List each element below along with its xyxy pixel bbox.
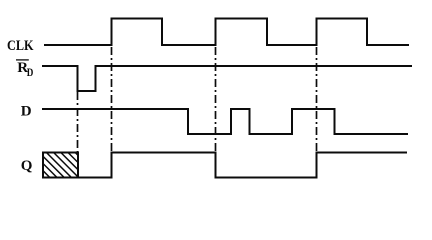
svg-text:Q: Q <box>21 158 33 174</box>
svg-text:D: D <box>27 67 34 79</box>
svg-text:CLK: CLK <box>7 38 34 54</box>
Q waveform <box>43 153 408 178</box>
dash-dot line at reset edge x=77.5 <box>77 92 79 153</box>
CLK waveform <box>44 19 409 46</box>
svg-text:D: D <box>21 104 32 120</box>
RD waveform <box>42 66 412 91</box>
dash-dot line at clock edge 1 x=111.5 <box>111 47 113 153</box>
D waveform <box>42 109 408 134</box>
dash-dot line at clock edge 2 x=215.5 <box>215 47 217 153</box>
dash-dot line at clock edge 3 x=316.5 <box>316 47 318 153</box>
label RD (R with overbar, subscript D) <box>16 60 33 79</box>
hatched indeterminate region of Q <box>25 153 101 179</box>
